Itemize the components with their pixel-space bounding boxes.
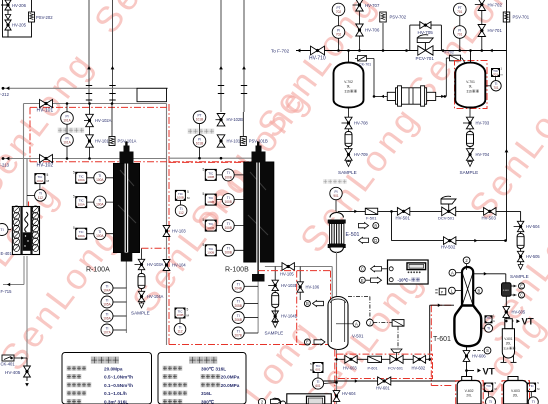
valve HV-104 bbox=[163, 260, 186, 271]
svg-text:HV-709: HV-709 bbox=[354, 152, 368, 157]
valve HV-605 bbox=[503, 307, 526, 318]
label V-603 bbox=[511, 389, 520, 398]
svg-text:To F-702: To F-702 bbox=[271, 49, 290, 54]
svg-text:HV-708: HV-708 bbox=[354, 121, 368, 126]
valve HV-106 bbox=[297, 267, 320, 301]
instrument PI-901 bbox=[324, 180, 347, 212]
pipe feed T601 bbox=[430, 303, 454, 361]
svg-text:TIC: TIC bbox=[486, 316, 492, 320]
svg-text:HV-104B: HV-104B bbox=[281, 314, 298, 319]
svg-text:901: 901 bbox=[333, 194, 339, 198]
svg-text:R-100B: R-100B bbox=[225, 267, 249, 274]
svg-text:HV-103A: HV-103A bbox=[147, 262, 164, 267]
red boundary vertical x169 bbox=[168, 104, 170, 345]
wire HV-702 chain bbox=[481, 0, 483, 51]
wire exchanger to F702 bbox=[436, 58, 465, 98]
svg-text:701: 701 bbox=[457, 10, 463, 14]
vessel V-702 bbox=[334, 63, 364, 108]
svg-text:HV-502: HV-502 bbox=[441, 245, 456, 250]
valve HV-710 bbox=[309, 46, 326, 61]
wire V701 riser bbox=[470, 51, 472, 64]
svg-text:PSV-702: PSV-702 bbox=[390, 15, 407, 20]
svg-text:207B: 207B bbox=[234, 333, 241, 337]
check valve CK-401 bbox=[1, 355, 28, 367]
instrument TI R100B bottom 4 bbox=[232, 327, 258, 339]
svg-text:SAMPLE: SAMPLE bbox=[510, 274, 529, 279]
reactor R-100A bottom cap bbox=[121, 253, 133, 289]
pipe E501 riser bbox=[336, 211, 338, 217]
svg-text:HV-602: HV-602 bbox=[412, 366, 426, 371]
svg-text:V-702: V-702 bbox=[344, 80, 353, 84]
label SAMPLE A bbox=[131, 311, 150, 316]
svg-text:HV-701: HV-701 bbox=[488, 28, 503, 33]
svg-text:FCV-601: FCV-601 bbox=[388, 367, 403, 371]
red boundary V-701 bbox=[455, 61, 488, 109]
svg-text:E-401: E-401 bbox=[1, 251, 13, 256]
svg-text:100B: 100B bbox=[207, 175, 214, 179]
valve HV-701 bbox=[478, 25, 502, 37]
svg-text:CK-701: CK-701 bbox=[359, 63, 371, 67]
red boundary B drain bbox=[258, 271, 331, 345]
red boundary drain bbox=[334, 350, 336, 404]
red boundary mid bbox=[30, 161, 257, 163]
svg-text:TI: TI bbox=[532, 400, 535, 404]
instrument C F601 bbox=[511, 292, 525, 298]
svg-text:TIC: TIC bbox=[529, 384, 535, 388]
instrument pair TIC/TI R100A row2 bbox=[73, 195, 114, 209]
instrument A T601 bbox=[449, 269, 462, 276]
instrument PT-701 bbox=[454, 3, 467, 16]
svg-text:D: D bbox=[374, 238, 377, 243]
svg-text:5: 5 bbox=[187, 190, 189, 194]
arrow sample 504 bbox=[518, 265, 523, 270]
reactor R-100A top cap bbox=[120, 142, 134, 164]
arrow sample 703 bbox=[468, 162, 473, 167]
instrument TI R100B bottom 2 bbox=[232, 297, 258, 309]
valve HV-703 bbox=[463, 117, 490, 129]
pipe F-501 branch bbox=[338, 210, 521, 214]
svg-text:C: C bbox=[361, 267, 364, 272]
red boundary V-603 bbox=[502, 381, 530, 404]
svg-text:100A: 100A bbox=[96, 234, 104, 238]
svg-text:V-602: V-602 bbox=[465, 389, 474, 393]
arrow vent header bbox=[490, 49, 493, 53]
relief valve PSV-101A bbox=[109, 137, 137, 146]
red boundary R100B left bbox=[169, 161, 257, 163]
instrument circle C bbox=[359, 266, 387, 272]
relief valve PSV-702 bbox=[380, 12, 407, 51]
red boundary R100A bbox=[30, 107, 169, 161]
svg-text:5: 5 bbox=[47, 173, 49, 177]
instrument PT-101B bbox=[193, 111, 206, 124]
red boundary bottom bbox=[169, 344, 336, 346]
valve HV-604 bbox=[333, 391, 356, 402]
instrument TI R100B bottom 3 bbox=[232, 312, 258, 324]
svg-text:HV-103B: HV-103B bbox=[281, 283, 298, 288]
valve HV-707 bbox=[353, 0, 380, 11]
svg-text:HV-106: HV-106 bbox=[306, 285, 320, 290]
level circles V501 A bbox=[336, 297, 404, 349]
svg-text:-10℃~: -10℃~ bbox=[398, 278, 412, 283]
svg-text:TI: TI bbox=[489, 400, 492, 404]
reactor R-100B vessel bbox=[244, 148, 274, 274]
blank box on header bbox=[137, 88, 167, 101]
svg-text:E: E bbox=[361, 278, 364, 283]
reactor R-100B bottom cap bbox=[252, 274, 265, 333]
label SAMPLE 703 bbox=[460, 170, 479, 175]
label T-601 bbox=[433, 336, 451, 343]
svg-text:HV-504: HV-504 bbox=[526, 224, 540, 229]
instrument pair TIC/TI R100B row2 bbox=[203, 192, 244, 206]
red boundary pump row bbox=[337, 354, 433, 378]
label F-715 bbox=[1, 289, 13, 294]
svg-text:V-603: V-603 bbox=[511, 389, 520, 393]
pipe T601 overhead bbox=[473, 272, 506, 283]
valve HV-205 bbox=[5, 20, 27, 30]
label V-501 bbox=[352, 334, 364, 339]
svg-text:R-100A: R-100A bbox=[86, 267, 110, 274]
relief valve PSV-701 bbox=[503, 12, 529, 22]
svg-text:HV-405: HV-405 bbox=[5, 370, 21, 375]
valve HV-102 bbox=[37, 154, 54, 168]
svg-text:V-701: V-701 bbox=[466, 80, 475, 84]
svg-text:20L: 20L bbox=[466, 394, 472, 398]
svg-text:PSV-202: PSV-202 bbox=[36, 15, 53, 20]
valve HV-601 bbox=[376, 377, 391, 391]
pipe sample chain 504 bbox=[520, 211, 522, 264]
wire TI column R100A bbox=[125, 288, 127, 333]
flange pair riser 2 bbox=[109, 86, 115, 101]
arrow D in bbox=[359, 237, 379, 243]
svg-text:101B: 101B bbox=[196, 141, 203, 145]
wire feed riser 1 bbox=[88, 0, 90, 104]
wire HV-707 chain bbox=[359, 0, 361, 51]
svg-text:SAMPLE: SAMPLE bbox=[131, 311, 150, 316]
flange pair riser 4 bbox=[241, 86, 247, 94]
instrument circle bottom mid bbox=[258, 398, 280, 404]
svg-text:HV-205: HV-205 bbox=[12, 23, 27, 28]
svg-text:20L: 20L bbox=[513, 394, 519, 398]
instrument 2 top T601 bbox=[463, 257, 470, 270]
arrow B out bbox=[359, 223, 379, 229]
instrument PI-101A lower bbox=[61, 134, 74, 147]
sample bomb B bbox=[272, 293, 279, 308]
valve HV-102A bbox=[84, 114, 112, 126]
svg-text:HV-102A: HV-102A bbox=[95, 118, 112, 123]
control panel bottom bbox=[270, 394, 331, 404]
reactor R-100B top cap bbox=[252, 142, 266, 163]
valve HV-606 bbox=[463, 347, 486, 377]
wire feed riser 4 bbox=[243, 0, 245, 112]
red tick furnace inlet bbox=[28, 202, 30, 207]
svg-text:HV-102: HV-102 bbox=[37, 163, 54, 169]
pipe R100B header bbox=[169, 157, 252, 159]
flange pair riser 3 bbox=[218, 86, 224, 94]
svg-text:HV-103: HV-103 bbox=[172, 229, 186, 234]
instrument TIC bottom bbox=[310, 362, 337, 389]
svg-text:100A: 100A bbox=[96, 203, 104, 207]
svg-text:105A: 105A bbox=[103, 302, 111, 306]
svg-text:100B: 100B bbox=[224, 251, 231, 255]
svg-text:701: 701 bbox=[457, 32, 463, 36]
valve DCV-501 with actuator bbox=[438, 196, 456, 220]
pipe main header y88 bbox=[2, 87, 168, 89]
svg-text:0.1~0.5Nm³/h: 0.1~0.5Nm³/h bbox=[104, 383, 133, 388]
svg-text:S: S bbox=[486, 348, 489, 353]
label V-702 text bbox=[344, 80, 357, 94]
svg-text:206B: 206B bbox=[234, 318, 241, 322]
svg-text:104A: 104A bbox=[103, 288, 111, 292]
valve HV-709 bbox=[345, 149, 368, 161]
instrument B T601 bbox=[473, 287, 482, 294]
filter F-601 bbox=[502, 283, 512, 297]
svg-text:204B: 204B bbox=[234, 287, 241, 291]
svg-text:m: m bbox=[501, 74, 503, 77]
svg-text:101A: 101A bbox=[63, 118, 71, 122]
svg-text:SAMPLE: SAMPLE bbox=[460, 170, 479, 175]
valve HV-104B bbox=[272, 308, 298, 322]
svg-text:HV-102B: HV-102B bbox=[227, 117, 244, 122]
instrument PI-101B bbox=[193, 135, 206, 148]
svg-text:PSV-701: PSV-701 bbox=[513, 15, 530, 20]
main vertical pipe right bbox=[505, 0, 509, 241]
svg-text:HV-710: HV-710 bbox=[309, 56, 326, 62]
svg-text:VT: VT bbox=[483, 367, 495, 378]
svg-text:m: m bbox=[493, 320, 495, 323]
svg-text:SAMPLE: SAMPLE bbox=[265, 331, 284, 336]
svg-text:20L: 20L bbox=[506, 342, 512, 346]
instrument S T601 drain bbox=[473, 347, 491, 354]
arrow up riser 4 bbox=[242, 66, 246, 69]
svg-text:100B: 100B bbox=[224, 226, 231, 230]
wire to exchanger bbox=[374, 59, 387, 99]
instrument L T601 bbox=[449, 287, 463, 294]
svg-text:HV-101: HV-101 bbox=[37, 108, 54, 114]
wire furnace outlet bbox=[3, 256, 27, 358]
label R-100A bbox=[86, 267, 110, 274]
svg-text:316: 316 bbox=[345, 90, 351, 94]
label SAMPLE 504 bbox=[510, 274, 529, 279]
sample chain V-701 bbox=[469, 108, 471, 163]
valve HV-602 bbox=[412, 355, 426, 370]
instrument TIC V-603 bbox=[527, 381, 539, 404]
wire PT-701 col bbox=[459, 16, 461, 51]
svg-text:0.1~1.0L/h: 0.1~1.0L/h bbox=[104, 391, 127, 396]
heat exchanger E-501 bbox=[328, 213, 346, 253]
svg-text:100B: 100B bbox=[224, 200, 231, 204]
flange pair riser 1 bbox=[86, 86, 92, 101]
relief valve PSV-202 bbox=[29, 12, 54, 22]
table system design 2 bbox=[158, 353, 246, 404]
vessel V-501 bbox=[328, 297, 348, 350]
valve HV-504 bbox=[514, 221, 541, 231]
svg-text:HV-705: HV-705 bbox=[418, 30, 434, 35]
svg-text:112: 112 bbox=[38, 196, 43, 200]
arrow up riser 1 bbox=[87, 66, 91, 69]
pump P-601 bbox=[368, 356, 382, 370]
arrow sample B bbox=[273, 323, 278, 328]
svg-text:701: 701 bbox=[493, 73, 498, 77]
table system design 1 bbox=[62, 353, 152, 404]
svg-text:112: 112 bbox=[179, 211, 184, 215]
instrument TIC V-602 bbox=[484, 381, 496, 404]
sample bomb 504 bbox=[517, 234, 524, 249]
red boundary V-602 bbox=[456, 381, 484, 404]
svg-text:E: E bbox=[520, 284, 523, 289]
pipe HV-601 row bbox=[321, 379, 467, 383]
valve HV-101 bbox=[37, 99, 54, 113]
instrument TI R100A bottom 2 bbox=[101, 296, 126, 308]
svg-text:F-715: F-715 bbox=[1, 289, 13, 294]
svg-text:B: B bbox=[478, 288, 481, 293]
furnace E-401 bbox=[12, 206, 39, 255]
svg-text:100B: 100B bbox=[207, 251, 214, 255]
pipe F601 down bbox=[505, 296, 507, 326]
wire PSV-101A bbox=[111, 104, 113, 137]
svg-text:300℃ 316L: 300℃ 316L bbox=[201, 365, 226, 371]
valve HV-706 bbox=[356, 24, 380, 36]
svg-text:5: 5 bbox=[73, 170, 75, 174]
vent funnel bbox=[5, 15, 11, 20]
svg-text:20.0MPa: 20.0MPa bbox=[221, 383, 240, 388]
svg-text:100A: 100A bbox=[78, 202, 85, 206]
svg-text:HV-206: HV-206 bbox=[12, 3, 27, 8]
label E-501 bbox=[346, 232, 360, 238]
svg-text:HV-707: HV-707 bbox=[365, 3, 380, 8]
sample bomb 703 bbox=[467, 132, 474, 147]
svg-text:HV-501: HV-501 bbox=[396, 216, 411, 221]
bypass HV-705 bbox=[410, 25, 442, 50]
label SAMPLE 708 bbox=[338, 170, 357, 175]
svg-text:HV-703: HV-703 bbox=[476, 121, 490, 126]
svg-text:HV-105: HV-105 bbox=[280, 272, 294, 277]
valve HV-103A bbox=[135, 259, 164, 269]
svg-text:HV-702: HV-702 bbox=[488, 3, 503, 8]
instrument TI R100B bottom 1 bbox=[232, 280, 258, 292]
instrument pair TIC/TI R100A row1 bbox=[73, 170, 114, 184]
svg-text:F-212: F-212 bbox=[0, 92, 10, 97]
svg-text:HV-601: HV-601 bbox=[376, 386, 390, 391]
svg-text:SAMPLE: SAMPLE bbox=[338, 170, 357, 175]
reactor R-100A vessel bbox=[114, 148, 140, 253]
instrument TI R100A bottom 1 bbox=[101, 282, 126, 294]
svg-text:0.3m² 316L: 0.3m² 316L bbox=[104, 400, 128, 404]
svg-text:205B: 205B bbox=[234, 304, 241, 308]
pipe pump row bbox=[337, 358, 430, 360]
valve HV-206 bbox=[1, 0, 27, 10]
svg-text:F-702: F-702 bbox=[445, 51, 454, 55]
svg-text:HV-603: HV-603 bbox=[343, 366, 357, 371]
red boundary T601 bbox=[431, 305, 452, 385]
instrument TI R100A bottom 4 bbox=[101, 324, 126, 336]
svg-text:P-601: P-601 bbox=[368, 367, 378, 371]
svg-text:702: 702 bbox=[336, 10, 342, 14]
valve HV-603 bbox=[343, 355, 357, 370]
instrument circles V501 bbox=[304, 301, 323, 307]
vessel V-603 bbox=[504, 377, 528, 404]
vent box top-left bbox=[3, 0, 32, 37]
arrow to F-213 bbox=[2, 157, 27, 161]
svg-text:100B: 100B bbox=[207, 226, 214, 230]
instrument PI-101A bbox=[61, 104, 74, 159]
svg-text:V-601: V-601 bbox=[504, 337, 513, 341]
wire PT-101B column bbox=[199, 111, 201, 158]
label SAMPLE B bbox=[265, 331, 284, 336]
svg-text:100B: 100B bbox=[177, 196, 184, 200]
label V-602 bbox=[465, 389, 474, 398]
svg-text:0.5~1.0Nm³/h: 0.5~1.0Nm³/h bbox=[104, 375, 133, 380]
wire PSV-101B riser bbox=[242, 112, 244, 137]
svg-text:5: 5 bbox=[203, 167, 205, 171]
instrument pair TIC/TI R100B row3 bbox=[203, 218, 244, 232]
pipe HV-502 loop bbox=[392, 211, 506, 242]
arrow to F-212 bbox=[2, 86, 10, 90]
svg-text:HV-104: HV-104 bbox=[172, 263, 186, 268]
pipe R100A top loop bbox=[24, 104, 167, 346]
svg-text:F-501: F-501 bbox=[366, 216, 377, 221]
instrument P square bbox=[435, 288, 446, 295]
instrument pair TIC/TI R100B row4 bbox=[203, 243, 244, 256]
valve HV-101B bbox=[217, 135, 243, 147]
svg-text:316: 316 bbox=[504, 347, 509, 351]
valve HV-101A bbox=[86, 135, 112, 147]
pipe R100B drain to E501 bbox=[265, 267, 332, 299]
valve HV-704 bbox=[466, 149, 489, 161]
svg-text:5: 5 bbox=[203, 218, 205, 222]
svg-text:HV-604: HV-604 bbox=[342, 391, 356, 396]
valve HV-501 bbox=[396, 208, 411, 221]
wire sample chain B2 bbox=[274, 267, 276, 309]
svg-text:J: J bbox=[369, 320, 371, 325]
label To F-702 bbox=[271, 49, 300, 54]
control valve FCV-601 bbox=[388, 349, 403, 371]
svg-text:20.0Mpa: 20.0Mpa bbox=[104, 366, 123, 371]
wire PT-702 col bbox=[338, 16, 340, 51]
wire V702 riser bbox=[348, 51, 350, 64]
label E-401 bbox=[1, 251, 13, 256]
valve HV-105 bbox=[280, 263, 294, 277]
svg-text:106A: 106A bbox=[103, 316, 111, 320]
svg-text:E-501: E-501 bbox=[346, 232, 360, 238]
instrument E F601 bbox=[511, 283, 525, 289]
svg-text:5: 5 bbox=[73, 226, 75, 230]
arrow up riser 3 bbox=[219, 66, 223, 69]
svg-text:CK-401: CK-401 bbox=[1, 362, 16, 367]
valve HV-102B bbox=[216, 114, 244, 126]
VT branch right bbox=[506, 317, 534, 328]
column T-601 bbox=[454, 267, 481, 346]
pipe E501 to V501 bbox=[336, 252, 338, 297]
instrument PT-702 bbox=[332, 3, 345, 16]
svg-text:601: 601 bbox=[315, 368, 320, 372]
sample bomb A bbox=[138, 274, 145, 289]
svg-text:316L: 316L bbox=[201, 391, 212, 396]
svg-text:9L: 9L bbox=[469, 85, 473, 89]
pipe V602 feed bbox=[466, 372, 468, 377]
vessel V-601 bbox=[501, 319, 517, 363]
svg-text:VT: VT bbox=[522, 317, 534, 328]
wire sample chain A bbox=[142, 248, 170, 305]
svg-text:701: 701 bbox=[493, 86, 499, 90]
svg-text:20.0MPa: 20.0MPa bbox=[221, 375, 240, 380]
valve HV-502 bbox=[441, 237, 456, 250]
check valve CK-701 bbox=[355, 56, 374, 67]
svg-text:100B: 100B bbox=[224, 175, 231, 179]
label V-701 text bbox=[466, 80, 479, 94]
svg-text:702: 702 bbox=[336, 32, 342, 36]
pipe vent header y50 bbox=[296, 50, 507, 52]
label F-212 bbox=[0, 92, 10, 97]
